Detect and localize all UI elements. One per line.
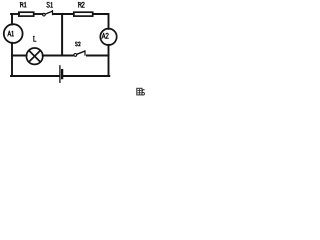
wire S2 to right vertical [87, 55, 109, 57]
wire between R1 and S1 [34, 13, 42, 15]
switch S1 blade [45, 11, 52, 14]
resistor R2 [74, 12, 93, 16]
wire battery to bottom right corner [63, 75, 109, 77]
wire top-left horizontal segment [11, 13, 19, 15]
wire bottom left to battery [11, 75, 59, 77]
label L [33, 36, 36, 41]
wire left vertical top to A1 [11, 14, 13, 25]
circuit labels drawn as vector glyphs [8, 2, 109, 46]
battery short plate [61, 70, 63, 78]
switch S2 contact tick [84, 51, 86, 55]
lamp L cross diagonal 2 [29, 51, 40, 62]
label R1 [20, 2, 26, 7]
wire middle row from left vertical to lamp [12, 55, 27, 57]
label figure caption 图6 [137, 88, 142, 95]
ammeter A2 [100, 29, 116, 45]
label S1 [47, 2, 53, 7]
resistor R1 [19, 12, 34, 16]
switch S1 pivot circle [43, 13, 46, 16]
wire S1 to R2 with junction [53, 13, 73, 15]
lamp L circle [26, 48, 42, 64]
wire junction branch vertical x=62 [61, 14, 63, 56]
label A1 [8, 31, 14, 36]
label R2 [78, 2, 84, 7]
switch S2 blade [77, 51, 85, 54]
battery long plate [59, 66, 61, 83]
label A2 [102, 33, 108, 38]
wire lamp to S2 [43, 55, 73, 57]
switch S1 contact tick [52, 11, 54, 15]
ammeter A1 [4, 24, 23, 43]
switch S2 pivot circle [74, 54, 77, 57]
lamp L cross diagonal 1 [29, 51, 40, 62]
label S2 [75, 42, 80, 46]
wire left vertical A1 to bottom corner [11, 43, 13, 76]
wire R2 to top-right corner [93, 14, 109, 29]
wire A2 down right vertical [108, 45, 110, 76]
